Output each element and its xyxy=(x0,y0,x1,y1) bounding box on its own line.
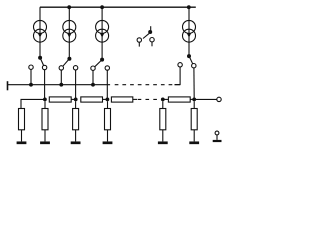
resistor R2 xyxy=(81,97,103,102)
node chain B xyxy=(74,98,78,102)
wire R3 dashed chain section xyxy=(133,98,163,100)
wire chain D to R9 xyxy=(162,101,164,108)
wire S2 left contact to bus2 xyxy=(60,70,62,85)
spare changeover switch S5 xyxy=(137,26,154,46)
wire chain D to R4 xyxy=(163,98,169,100)
wire R1 to node B xyxy=(71,98,76,100)
wire R6 to ground xyxy=(44,130,46,142)
node top bus / T4 junction xyxy=(187,5,191,9)
switch S2 blade xyxy=(63,60,69,67)
bus2 dashed wire xyxy=(115,84,180,86)
wire bus to T1 xyxy=(39,7,41,20)
wire bus to T4 xyxy=(188,7,190,20)
node S1 pole xyxy=(38,56,42,60)
node bus2 / S1 junction xyxy=(29,83,33,87)
wire S3 right contact to chain xyxy=(106,70,108,99)
transformer T3 xyxy=(96,20,109,42)
switch S1 right contact xyxy=(42,65,46,69)
node S3 pole xyxy=(100,58,104,62)
ground G7 xyxy=(213,140,222,142)
wire S1 right contact to chain xyxy=(44,70,46,100)
ground G3 xyxy=(71,141,81,144)
wire chain C to R8 xyxy=(107,101,109,108)
node bus2 / S3 junction xyxy=(91,83,95,87)
output terminal circle xyxy=(217,97,221,101)
node chain E xyxy=(192,98,196,102)
earth terminal circle xyxy=(215,131,219,135)
resistor R5 xyxy=(19,109,25,130)
wire chain left arm to R5 xyxy=(21,99,45,108)
switch S1 blade xyxy=(41,59,44,66)
wire chain to output terminal xyxy=(194,98,217,100)
bus2 left terminal xyxy=(7,81,9,90)
switch S3 blade xyxy=(95,60,102,66)
wire earth terminal stem xyxy=(216,135,218,140)
node bus2 / S2 junction xyxy=(59,83,63,87)
wire R10 to ground xyxy=(193,130,195,142)
wire R2 to node C xyxy=(103,98,108,100)
ground G6 xyxy=(189,141,199,144)
ground G5 xyxy=(158,141,168,144)
switch S4 right contact xyxy=(192,63,196,67)
wire S4 left contact down and left to dashed bus2 xyxy=(175,67,181,85)
switch S3 left contact xyxy=(91,66,95,70)
resistor R6 xyxy=(42,109,48,130)
wire T1 to S1 pole xyxy=(39,42,41,58)
transformer T1 xyxy=(34,20,47,42)
wire T2 to S2 pole xyxy=(68,42,70,59)
node chain D xyxy=(161,98,165,102)
wire R4 to node E xyxy=(190,98,194,100)
wire R7 to ground xyxy=(75,130,77,142)
resistor R1 xyxy=(49,97,71,102)
switch S1 left contact xyxy=(29,65,33,69)
wire T4 to S4 pole xyxy=(188,42,190,56)
node S2 pole xyxy=(67,57,71,61)
switch S4 left contact xyxy=(178,63,182,67)
transformer T4 xyxy=(183,20,196,42)
resistor R8 xyxy=(105,109,111,130)
top bus xyxy=(40,6,196,8)
wire chain B to R7 xyxy=(75,101,77,108)
wire S2 right contact to chain xyxy=(75,70,77,99)
ground G4 xyxy=(103,141,113,144)
switch S2 left contact xyxy=(59,66,63,70)
switch S4 blade xyxy=(190,57,193,64)
transformer T2 xyxy=(63,20,76,42)
wire S3 left contact to bus2 xyxy=(92,70,94,84)
wire S1 left contact to bus2 xyxy=(30,69,32,84)
wire bus to T3 xyxy=(101,7,103,20)
node top bus / T2 junction xyxy=(67,5,71,9)
resistor R3 xyxy=(111,97,132,102)
resistor R4 xyxy=(168,97,190,102)
switch S3 right contact xyxy=(105,66,109,70)
node chain A xyxy=(43,98,47,102)
switch S2 right contact xyxy=(73,66,77,70)
resistor R10 xyxy=(191,109,197,130)
resistor R9 xyxy=(160,109,166,130)
wire R8 to ground xyxy=(107,130,109,142)
wire R9 to ground xyxy=(162,130,164,142)
ground G1 xyxy=(17,141,27,144)
wire chain A to R6 xyxy=(44,101,46,108)
wire bus to T2 xyxy=(68,7,70,20)
wire chain E to R10 xyxy=(193,101,195,108)
wire T3 to S3 pole xyxy=(101,42,103,59)
wire R5 to ground xyxy=(21,130,23,142)
resistor R7 xyxy=(73,109,79,130)
node S4 pole xyxy=(187,54,191,58)
wire S4 right contact to chain xyxy=(193,68,195,100)
node top bus / T3 junction xyxy=(100,5,104,9)
node chain C xyxy=(106,98,110,102)
bus2 solid wire xyxy=(8,84,111,86)
ground G2 xyxy=(40,141,50,144)
